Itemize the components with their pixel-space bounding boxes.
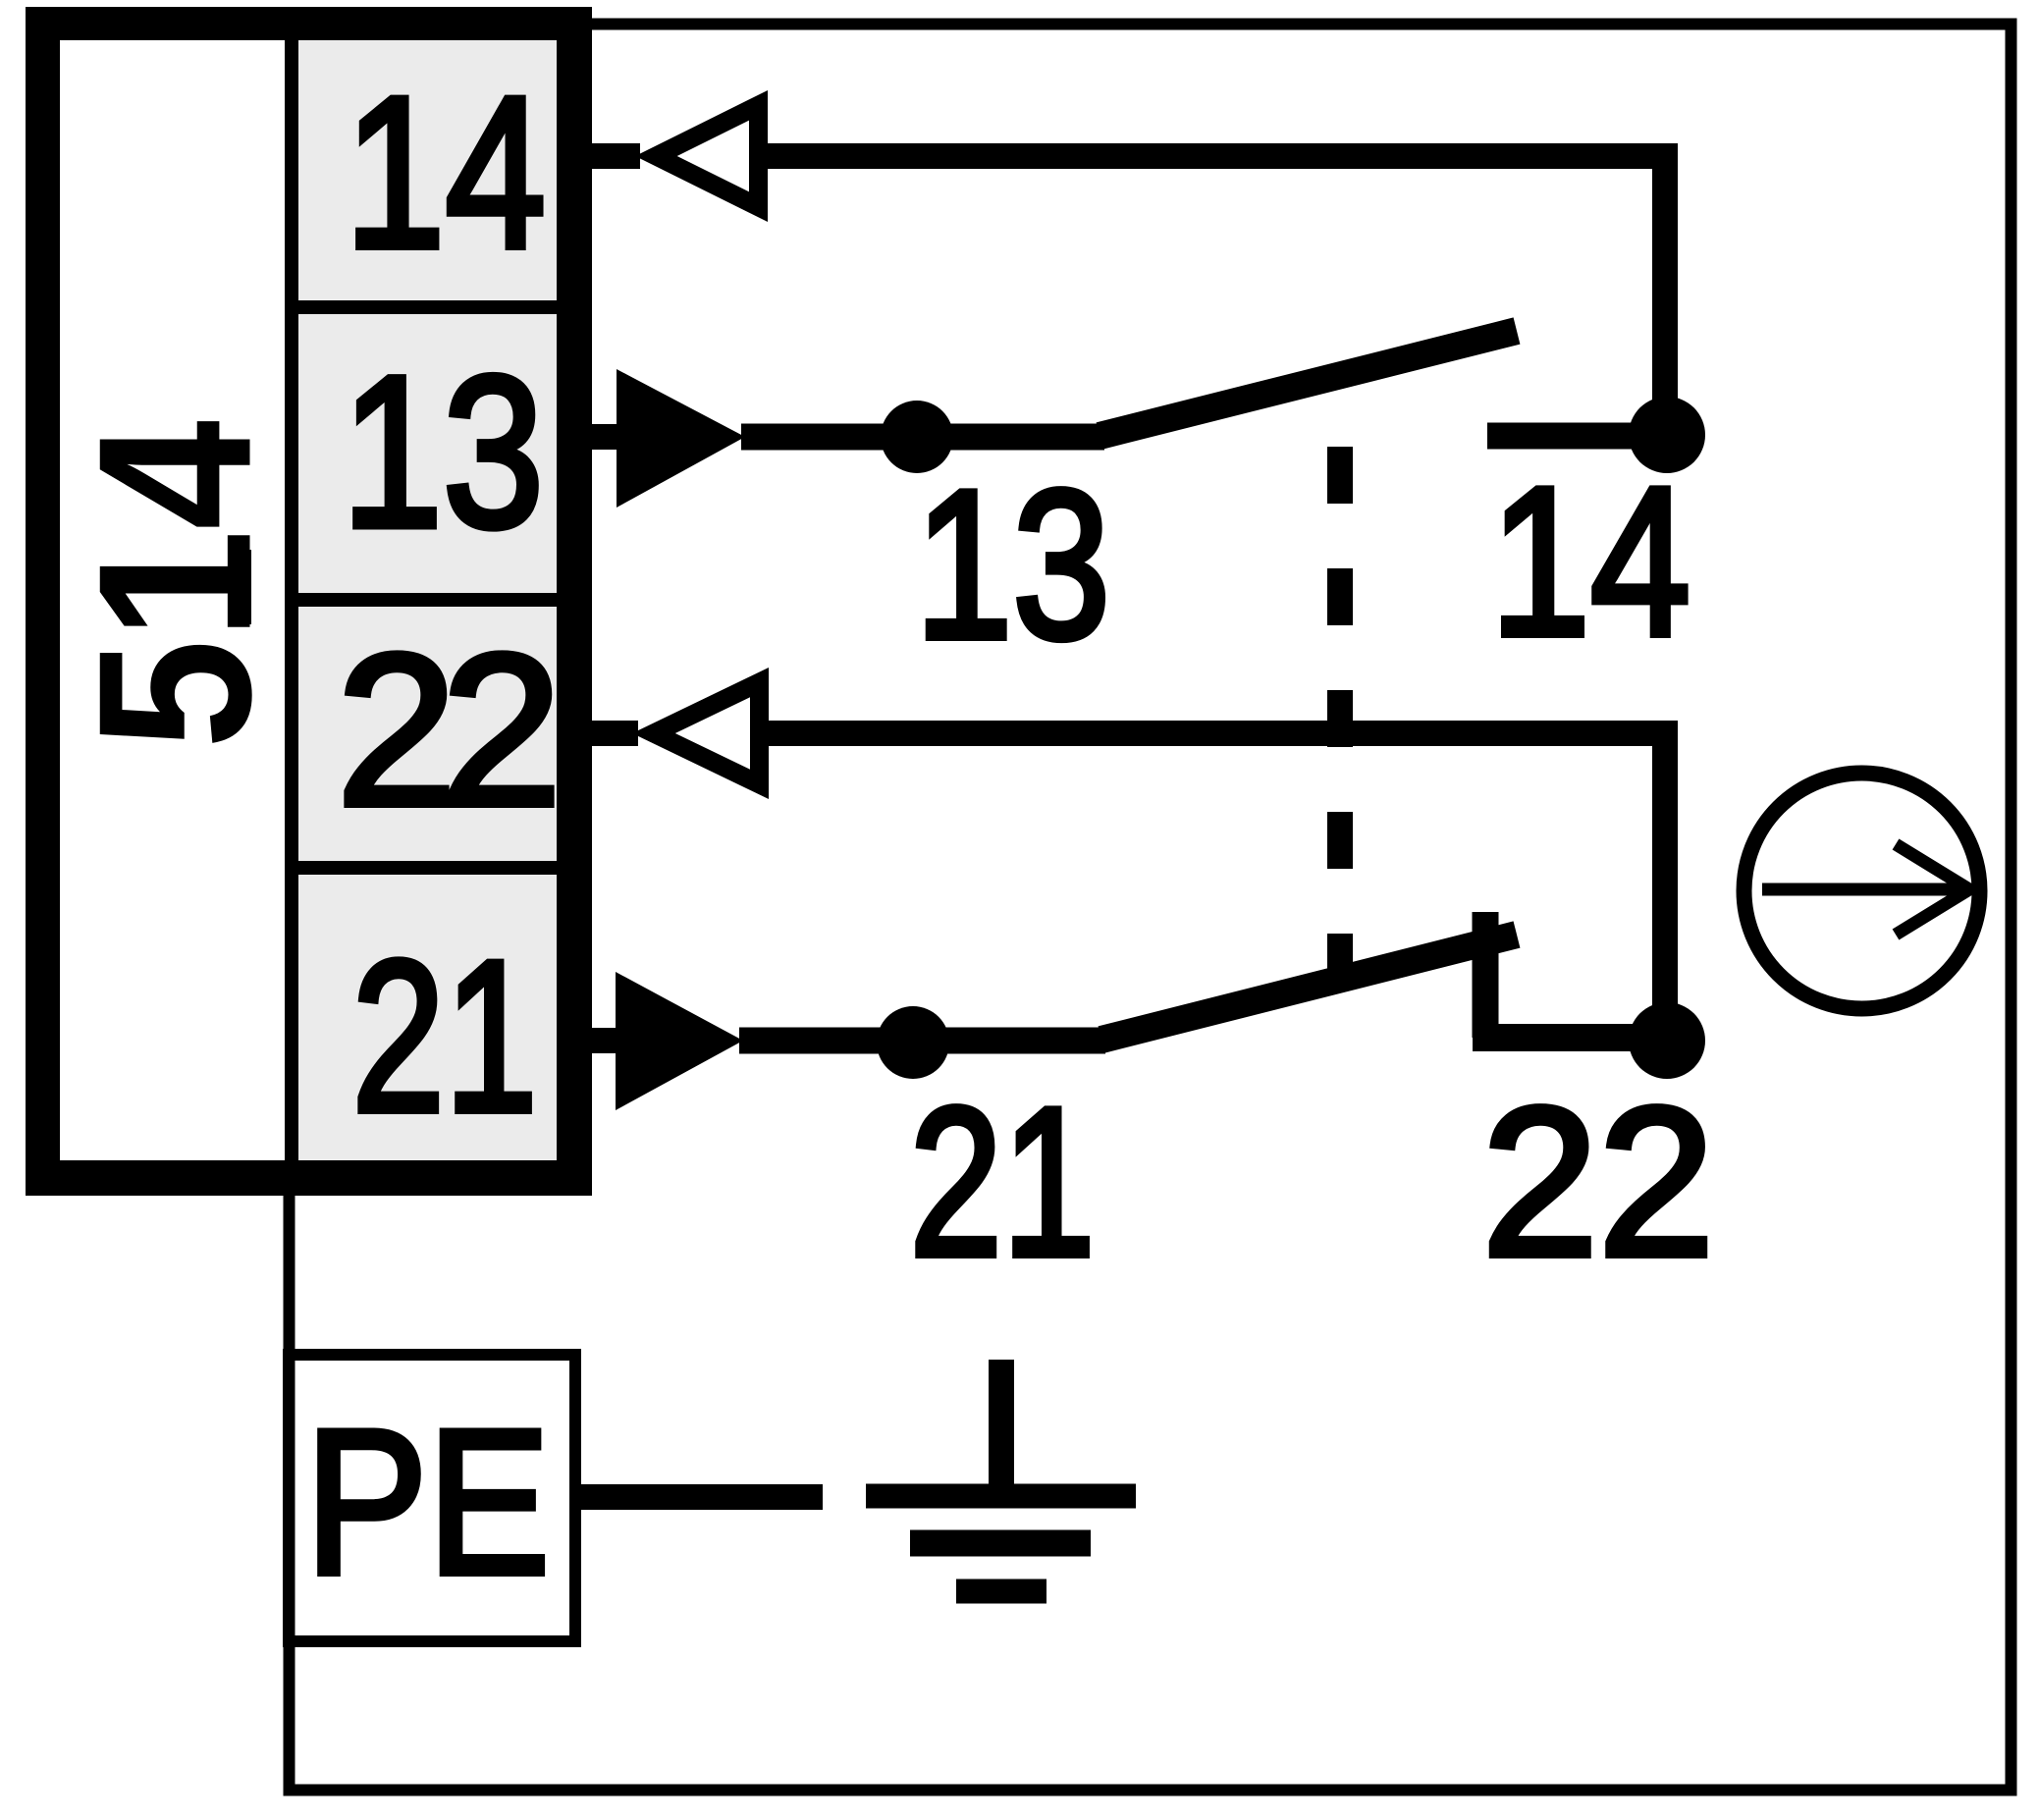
- svg-text:14: 14: [1490, 443, 1690, 680]
- cell separator 13/22: [298, 593, 557, 607]
- serif foot cell 14: [367, 236, 424, 250]
- switch body box 514: [26, 7, 592, 1196]
- open arrowhead 14: [635, 90, 768, 222]
- svg-text:22: 22: [1482, 1063, 1715, 1301]
- node 22 junction dot: [1629, 1002, 1705, 1079]
- terminal PE box: [289, 1355, 575, 1641]
- wire 21 stub: [592, 1028, 619, 1053]
- serif foot label 21: [1024, 1244, 1081, 1258]
- node 13 junction dot: [881, 401, 953, 473]
- svg-text:2: 2: [442, 610, 562, 851]
- serif foot cell 13: [365, 514, 422, 529]
- contact blade 21-22: [1101, 935, 1517, 1040]
- open arrowhead 22: [632, 668, 769, 799]
- svg-text:13: 13: [342, 331, 544, 572]
- fixed contact 22 horizontal: [1473, 1024, 1667, 1051]
- svg-text:PE: PE: [305, 1387, 550, 1618]
- wire 13 stub: [592, 424, 620, 450]
- ground: [866, 1360, 1136, 1591]
- terminal strip left separator: [285, 40, 298, 1160]
- wire 22 stub: [592, 721, 638, 746]
- svg-text:21: 21: [910, 1063, 1096, 1301]
- actuation direction symbol: [1744, 774, 1980, 1009]
- wire 14 to contact: [764, 156, 1665, 435]
- terminal strip background: [298, 40, 557, 1160]
- node 14 junction dot: [1629, 397, 1705, 473]
- wire 22 to contact: [765, 733, 1665, 1041]
- contact blade 13-14: [1100, 331, 1517, 436]
- svg-text:2: 2: [337, 610, 456, 851]
- filled arrowhead 21: [616, 972, 743, 1110]
- cell separator 14/13: [298, 300, 557, 314]
- svg-text:514: 514: [54, 420, 297, 749]
- wire 14 stub: [592, 143, 640, 169]
- svg-text:21: 21: [352, 916, 538, 1157]
- serif foot label 13: [936, 626, 993, 641]
- svg-text:13: 13: [915, 446, 1110, 683]
- wire 13: [741, 424, 1104, 451]
- svg-text:14: 14: [345, 52, 546, 294]
- fixed contact 22 vertical: [1473, 912, 1499, 1038]
- serif foot cell 21: [466, 1099, 523, 1114]
- cell separator 22/21: [298, 861, 557, 875]
- serif foot label 14: [1513, 623, 1570, 638]
- wire PE: [581, 1484, 823, 1510]
- mechanical link dashed: [1327, 447, 1353, 970]
- node 21 junction dot: [877, 1006, 949, 1079]
- wire 21: [739, 1028, 1105, 1054]
- wire fixed contact 14: [1487, 423, 1667, 450]
- filled arrowhead 13: [617, 369, 745, 508]
- serif foot 514: [228, 550, 251, 624]
